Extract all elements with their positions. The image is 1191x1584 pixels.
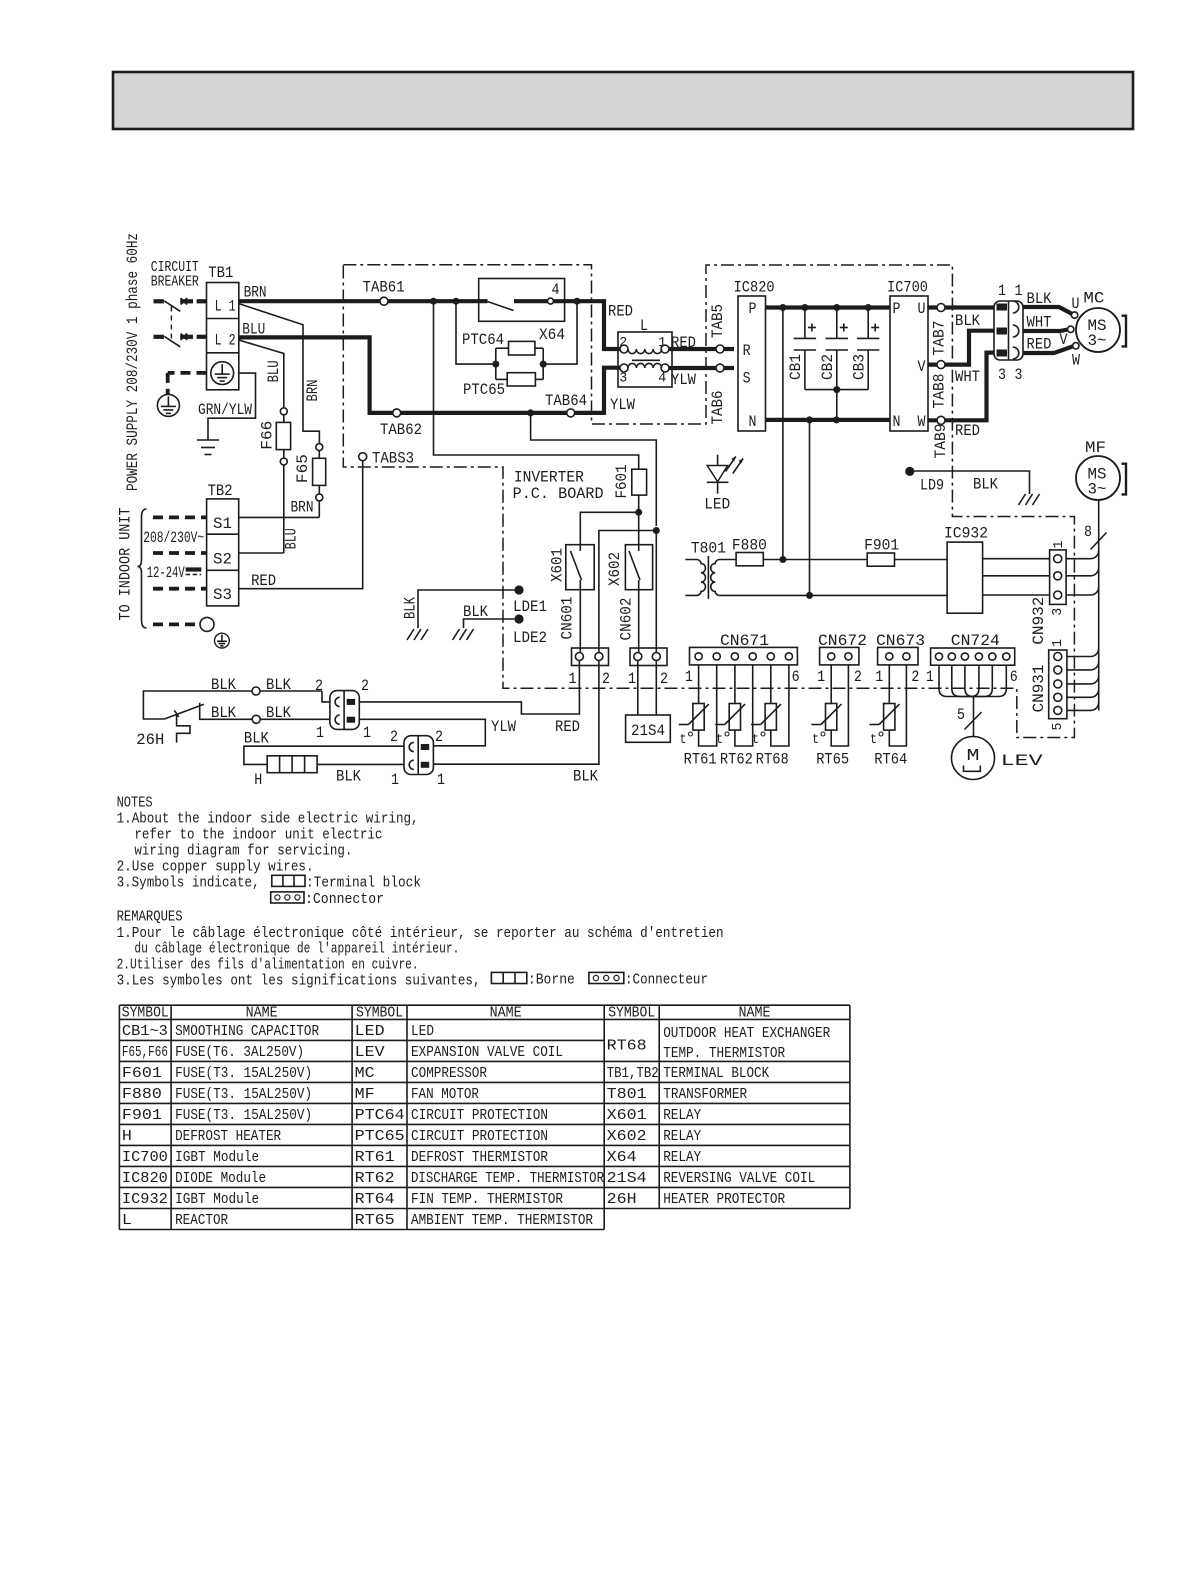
svg-text:3~: 3~: [1088, 481, 1107, 499]
svg-text:N: N: [893, 413, 901, 431]
heater protector 26H: [136, 691, 330, 749]
svg-text:GRN/YLW: GRN/YLW: [198, 401, 253, 419]
svg-text:TAB64: TAB64: [545, 392, 587, 410]
connecteur symbol legend: [589, 972, 708, 989]
svg-text:CN931: CN931: [1030, 665, 1048, 713]
connector CN724: [926, 632, 1018, 686]
svg-text:BLK: BLK: [266, 676, 292, 694]
svg-text:BLK: BLK: [973, 476, 999, 494]
svg-text:X602: X602: [606, 552, 624, 586]
node F601 out: [635, 509, 642, 516]
reversing valve coil 21S4: [626, 661, 671, 743]
GRN/YLW earth wire: [197, 373, 256, 454]
splice BLK lower: [211, 704, 292, 723]
svg-text:LEV: LEV: [355, 1045, 385, 1061]
svg-text:MC: MC: [1083, 290, 1104, 308]
svg-text:NOTES: NOTES: [117, 795, 153, 812]
svg-text:RED: RED: [1027, 336, 1052, 354]
svg-text:FUSE(T3. 15AL250V): FUSE(T3. 15AL250V): [175, 1108, 312, 1124]
svg-text:t: t: [812, 732, 819, 748]
svg-text:R: R: [743, 342, 751, 360]
svg-text:1: 1: [926, 668, 934, 686]
splice BLK upper: [211, 676, 292, 695]
svg-text:IGBT Module: IGBT Module: [175, 1192, 259, 1208]
svg-text:YLW: YLW: [671, 371, 697, 389]
thermistor RT61: [679, 665, 717, 769]
transformer T801: [685, 540, 736, 599]
svg-text:H: H: [254, 771, 262, 789]
svg-text:FAN MOTOR: FAN MOTOR: [411, 1087, 479, 1103]
connector CN601: [559, 597, 611, 689]
wire V phase: [928, 331, 994, 365]
svg-text:PTC65: PTC65: [463, 381, 505, 399]
svg-text:RED: RED: [671, 334, 696, 352]
svg-text:1: 1: [628, 670, 636, 688]
svg-text:FIN TEMP. THERMISTOR: FIN TEMP. THERMISTOR: [411, 1192, 563, 1208]
svg-text:8: 8: [1084, 523, 1092, 541]
svg-text:IC820: IC820: [122, 1171, 168, 1187]
PTC64 PTC65 protection circuit: [456, 301, 577, 379]
svg-text:1.Pour le câblage électronique: 1.Pour le câblage électronique côté inté…: [117, 925, 724, 942]
fuse F66: [259, 408, 301, 553]
svg-text:BRN: BRN: [291, 499, 314, 517]
svg-text:CN724: CN724: [951, 632, 1000, 650]
svg-text:LD9: LD9: [920, 477, 944, 495]
connector 26H plug: [315, 677, 371, 742]
svg-text:3.Symbols indicate,: 3.Symbols indicate,: [117, 875, 260, 892]
wire S1: [239, 516, 320, 518]
svg-text:LED: LED: [411, 1024, 434, 1040]
svg-text:BLK: BLK: [266, 704, 292, 722]
thermistor RT62: [715, 665, 753, 769]
svg-text:AMBIENT TEMP. THERMISTOR: AMBIENT TEMP. THERMISTOR: [411, 1213, 593, 1229]
svg-text:BREAKER: BREAKER: [151, 274, 199, 291]
terminal TAB8: [931, 361, 981, 409]
svg-text::Borne: :Borne: [528, 972, 575, 989]
svg-text:1: 1: [817, 668, 825, 686]
svg-text:t: t: [752, 732, 759, 748]
terminal block symbol legend: [272, 875, 421, 892]
svg-text:RT68: RT68: [607, 1039, 647, 1055]
svg-text:RELAY: RELAY: [663, 1150, 701, 1166]
connector CN673: [875, 632, 925, 686]
inverter PCB boundary: [343, 265, 1074, 738]
svg-text:F66: F66: [259, 421, 277, 450]
wire MC BLK: [1023, 290, 1072, 314]
terminal TABS3: [359, 449, 414, 467]
wire X602 to CN602-1: [638, 590, 640, 653]
svg-text:X602: X602: [607, 1129, 647, 1145]
svg-text:YLW: YLW: [610, 396, 636, 414]
svg-text:26H: 26H: [136, 731, 164, 749]
wire P bus: [766, 304, 891, 311]
relay X601: [549, 545, 595, 590]
svg-text:CB3: CB3: [850, 354, 868, 380]
svg-text:X601: X601: [607, 1108, 647, 1124]
svg-text:RELAY: RELAY: [663, 1108, 701, 1124]
terminal TAB6: [709, 364, 727, 425]
TO INDOOR UNIT label and brace: [117, 508, 205, 629]
svg-text:SYMBOL: SYMBOL: [356, 1004, 403, 1021]
svg-text:REACTOR: REACTOR: [175, 1213, 228, 1229]
svg-text:IC932: IC932: [122, 1192, 168, 1208]
svg-text:FUSE(T6. 3AL250V): FUSE(T6. 3AL250V): [175, 1045, 304, 1061]
svg-text:LEV: LEV: [1001, 752, 1044, 770]
svg-text:TAB5: TAB5: [709, 304, 727, 338]
svg-text:BLK: BLK: [336, 767, 362, 785]
wire YLW plug link: [359, 718, 516, 746]
svg-text:1: 1: [569, 670, 577, 688]
svg-text:T801: T801: [607, 1087, 647, 1103]
external earth electrode: [157, 394, 179, 416]
svg-text:TAB9: TAB9: [932, 424, 950, 459]
svg-text:NAME: NAME: [490, 1004, 522, 1021]
wire reactor to IC820 R: [668, 334, 734, 352]
wire T801 secondary rail: [720, 592, 947, 599]
svg-text:5: 5: [957, 706, 965, 724]
svg-text:26H: 26H: [607, 1192, 637, 1208]
svg-text:BLK: BLK: [1027, 290, 1053, 308]
wire to relay X601: [580, 512, 638, 544]
wire RED to CN601-1: [359, 661, 580, 737]
svg-text:CIRCUIT PROTECTION: CIRCUIT PROTECTION: [411, 1129, 548, 1145]
svg-text:LDE1: LDE1: [513, 598, 547, 616]
svg-text:4: 4: [658, 371, 666, 387]
terminal LDE1: [402, 585, 548, 640]
svg-text:TERMINAL BLOCK: TERMINAL BLOCK: [663, 1066, 769, 1082]
wire W phase: [928, 353, 994, 421]
svg-text:H: H: [122, 1129, 132, 1145]
svg-text:TAB8: TAB8: [931, 374, 949, 409]
connector symbol legend: [271, 891, 384, 908]
inverter PCB label: [513, 469, 604, 503]
svg-text:X64: X64: [607, 1150, 637, 1166]
wire X601 to CN601-1: [579, 590, 581, 653]
svg-text:TABS3: TABS3: [372, 449, 414, 467]
defrost heater H: [254, 756, 404, 789]
svg-text:T801: T801: [691, 540, 726, 558]
svg-text:L: L: [640, 317, 648, 335]
svg-text:EXPANSION VALVE COIL: EXPANSION VALVE COIL: [411, 1045, 563, 1061]
svg-text:F901: F901: [864, 536, 899, 554]
svg-text:6: 6: [1010, 668, 1018, 686]
circuit breaker label: [151, 259, 199, 291]
connector CN672: [817, 632, 867, 686]
terminal TAB62: [380, 409, 422, 439]
svg-text:P: P: [749, 300, 757, 318]
svg-text:1: 1: [437, 771, 445, 789]
svg-text:POWER SUPPLY 208/230V 1 phase: POWER SUPPLY 208/230V 1 phase 60Hz: [124, 233, 142, 491]
svg-text:BLK: BLK: [211, 676, 237, 694]
wire F901 to IC932: [895, 559, 948, 561]
svg-text:21S4: 21S4: [631, 722, 665, 740]
svg-text:REVERSING VALVE COIL: REVERSING VALVE COIL: [663, 1171, 815, 1187]
svg-text:S: S: [743, 370, 751, 388]
wire BLK to heater: [244, 730, 404, 765]
IGBT module IC932: [944, 525, 988, 614]
svg-text:DISCHARGE TEMP. THERMISTOR: DISCHARGE TEMP. THERMISTOR: [411, 1171, 604, 1187]
svg-text::Terminal block: :Terminal block: [306, 875, 421, 892]
compressor motor MC: [1060, 290, 1127, 370]
connector CN932: [1030, 541, 1067, 645]
thermistor RT64: [870, 665, 908, 769]
svg-text:CN673: CN673: [876, 632, 925, 650]
svg-text:SYMBOL: SYMBOL: [122, 1004, 169, 1021]
svg-text:BLU: BLU: [265, 360, 283, 382]
fuse F880: [732, 536, 767, 565]
wire BLK heater return: [434, 661, 599, 786]
svg-text:RT65: RT65: [355, 1213, 395, 1229]
svg-text:1: 1: [1050, 639, 1066, 647]
svg-text:IC700: IC700: [122, 1150, 168, 1166]
wire S2: [239, 552, 284, 554]
svg-text:W: W: [1072, 352, 1081, 370]
svg-text:1: 1: [363, 724, 371, 742]
svg-text:RELAY: RELAY: [663, 1129, 701, 1145]
svg-text:F901: F901: [122, 1108, 162, 1124]
svg-text:WHT: WHT: [955, 368, 980, 386]
wire capacitor bottom bus: [805, 386, 868, 420]
wire MC RED: [1023, 336, 1073, 354]
svg-text:RT61: RT61: [684, 751, 717, 769]
notes text: [117, 795, 419, 892]
wire S3 RED to TABS3: [239, 461, 363, 590]
svg-text:RT61: RT61: [355, 1150, 395, 1166]
terminal TAB64: [545, 392, 587, 417]
svg-text:W: W: [918, 413, 927, 431]
svg-text:RT65: RT65: [816, 751, 849, 769]
svg-text:1: 1: [1051, 541, 1067, 549]
resistor PTC64: [462, 331, 535, 355]
svg-text:RED: RED: [251, 572, 276, 590]
fan motor MF: [1076, 439, 1126, 500]
svg-text:BLK: BLK: [244, 730, 270, 748]
wire BRN L1 to F65: [239, 284, 322, 444]
svg-text:F601: F601: [122, 1066, 162, 1082]
svg-text:TO INDOOR UNIT: TO INDOOR UNIT: [117, 508, 135, 621]
svg-text:3: 3: [998, 366, 1006, 384]
svg-text:DEFROST THERMISTOR: DEFROST THERMISTOR: [411, 1150, 548, 1166]
circuit breaker poles: [154, 298, 207, 347]
borne symbol legend: [491, 972, 575, 989]
svg-text:RT64: RT64: [355, 1192, 395, 1208]
svg-text:t: t: [716, 732, 723, 748]
relay X602: [606, 545, 653, 590]
svg-text:5: 5: [1050, 723, 1066, 731]
connector CN602: [618, 598, 669, 689]
svg-text:12-24V: 12-24V: [147, 564, 185, 582]
svg-text:CB2: CB2: [819, 354, 837, 380]
wire BLU L2 to F66: [239, 320, 284, 407]
svg-text:TB1: TB1: [208, 264, 233, 282]
terminal TAB7: [931, 304, 981, 356]
svg-text:PTC64: PTC64: [355, 1108, 405, 1124]
svg-text:TAB62: TAB62: [380, 421, 422, 439]
svg-text:TEMP. THERMISTOR: TEMP. THERMISTOR: [663, 1046, 785, 1062]
svg-text:BLK: BLK: [955, 312, 981, 330]
svg-text:2: 2: [315, 677, 323, 695]
svg-text:6: 6: [792, 668, 800, 686]
svg-text:CN672: CN672: [818, 632, 867, 650]
resistor PTC65: [463, 373, 535, 399]
svg-text:YLW: YLW: [491, 718, 517, 736]
svg-text::Connector: :Connector: [305, 891, 384, 908]
compressor connector: [994, 282, 1023, 384]
svg-text:BRN: BRN: [244, 284, 267, 302]
svg-text:BLK: BLK: [211, 704, 237, 722]
terminal LDE2: [453, 603, 548, 647]
svg-text:TAB61: TAB61: [363, 279, 405, 297]
svg-text:S3: S3: [213, 586, 232, 604]
svg-text:2.Use copper supply wires.: 2.Use copper supply wires.: [117, 859, 314, 876]
IGBT module IC700: [887, 279, 928, 431]
svg-text:S2: S2: [213, 551, 232, 569]
svg-text:refer to the indoor unit elect: refer to the indoor unit electric: [134, 827, 382, 844]
svg-text:1: 1: [1015, 282, 1023, 300]
terminal TAB5: [709, 304, 727, 353]
svg-text:RED: RED: [555, 718, 580, 736]
svg-text:S1: S1: [213, 515, 232, 533]
wire N rail drop to T801 line: [809, 420, 811, 596]
ground wire dashed: [168, 373, 207, 395]
svg-text:2: 2: [361, 677, 369, 695]
svg-text:F601: F601: [613, 465, 631, 499]
svg-text:V: V: [1060, 331, 1069, 349]
svg-text:RT62: RT62: [720, 751, 753, 769]
expansion valve motor LEV: [952, 737, 1044, 780]
svg-text:TB2: TB2: [208, 482, 233, 500]
svg-text:1: 1: [316, 724, 324, 742]
svg-text:F880: F880: [122, 1087, 162, 1103]
wire U phase: [928, 305, 994, 309]
svg-text:1: 1: [658, 335, 666, 351]
svg-text:2: 2: [602, 670, 610, 688]
svg-text:1.About the indoor side electr: 1.About the indoor side electric wiring,: [117, 811, 419, 828]
svg-text:INVERTER: INVERTER: [514, 469, 584, 487]
fuse F601: [434, 301, 647, 512]
svg-text:M: M: [967, 747, 980, 766]
svg-text:2.Utiliser des fils d'alimenta: 2.Utiliser des fils d'alimentation en cu…: [117, 957, 419, 974]
svg-text::Connecteur: :Connecteur: [625, 972, 708, 989]
svg-text:DIODE Module: DIODE Module: [175, 1171, 266, 1187]
svg-text:2: 2: [619, 335, 627, 351]
svg-text:RED: RED: [955, 422, 980, 440]
svg-text:2: 2: [660, 670, 668, 688]
svg-text:BRN: BRN: [304, 380, 322, 402]
svg-text:4: 4: [552, 281, 560, 299]
fuse F65: [291, 444, 326, 518]
svg-text:21S4: 21S4: [607, 1171, 647, 1187]
wire P rail drop to F880 line: [782, 308, 784, 560]
svg-text:t: t: [870, 732, 877, 748]
svg-text:MC: MC: [355, 1066, 375, 1082]
node TAB64 junction: [527, 409, 534, 416]
svg-text:NAME: NAME: [739, 1004, 771, 1021]
svg-text:SMOOTHING CAPACITOR: SMOOTHING CAPACITOR: [175, 1024, 319, 1040]
svg-text:REMARQUES: REMARQUES: [117, 908, 183, 925]
svg-text:F880: F880: [732, 536, 767, 554]
fuse F901: [864, 536, 899, 566]
capacitor CB1: [787, 308, 816, 390]
svg-text:du câblage électronique de l'a: du câblage électronique de l'appareil in…: [134, 941, 459, 958]
indoor earth terminal: [200, 617, 229, 648]
wire YLW to CN602-2: [655, 531, 657, 653]
svg-text:BLK: BLK: [402, 596, 420, 619]
node L1-X64 junctions: [430, 298, 581, 305]
wire to CN601-2: [599, 531, 656, 653]
svg-text:LDE2: LDE2: [513, 629, 547, 647]
svg-text:P.C. BOARD: P.C. BOARD: [513, 485, 604, 503]
node YLW junction: [653, 527, 660, 534]
svg-text:NAME: NAME: [246, 1004, 278, 1021]
svg-text:TAB7: TAB7: [931, 321, 949, 356]
svg-text:208/230V~: 208/230V~: [143, 529, 204, 547]
wire L1 BRN main: [239, 301, 633, 349]
svg-text:3~: 3~: [1088, 332, 1107, 350]
connector CN671: [685, 632, 800, 686]
title header bar: [113, 72, 1133, 129]
terminal LD9: [905, 467, 1039, 505]
wires CN932 to fan bundle: [1066, 551, 1099, 595]
remarques text: [117, 908, 724, 989]
svg-text:N: N: [749, 413, 757, 431]
svg-text:OUTDOOR HEAT EXCHANGER: OUTDOOR HEAT EXCHANGER: [663, 1026, 830, 1042]
svg-text:3: 3: [1015, 366, 1023, 384]
svg-text:RT68: RT68: [756, 751, 789, 769]
relay X64: [479, 279, 565, 345]
terminal block TB1: [207, 264, 239, 390]
wire fan motor bundle: [1084, 500, 1107, 710]
wires CN724 bundle to LEV: [939, 665, 1006, 736]
svg-text:BLU: BLU: [282, 528, 300, 549]
svg-text:PTC64: PTC64: [462, 331, 504, 349]
svg-text:2: 2: [911, 668, 919, 686]
svg-text:L 2: L 2: [215, 332, 236, 350]
svg-text:L: L: [122, 1213, 132, 1229]
wire N bus: [766, 416, 891, 423]
svg-text:IGBT Module: IGBT Module: [175, 1150, 259, 1166]
indoor unit dashed leads: [153, 517, 207, 624]
terminal block TB2: [207, 482, 239, 606]
legend table: [119, 1004, 850, 1229]
svg-text:TRANSFORMER: TRANSFORMER: [663, 1087, 747, 1103]
wire YLW feed to X602 CN601-2: [531, 413, 657, 526]
thermistor RT65: [811, 665, 849, 769]
svg-text:CN671: CN671: [720, 632, 769, 650]
svg-text:U: U: [1072, 295, 1080, 313]
svg-text:3: 3: [1050, 608, 1066, 616]
svg-text:WHT: WHT: [1027, 314, 1052, 332]
thermistor RT68: [751, 665, 789, 769]
svg-text:FUSE(T3. 15AL250V): FUSE(T3. 15AL250V): [175, 1066, 312, 1082]
svg-text:2: 2: [390, 728, 398, 746]
svg-text:2: 2: [435, 728, 443, 746]
svg-text:MF: MF: [1085, 439, 1106, 457]
LED indicator: [704, 455, 743, 514]
svg-text:RED: RED: [608, 302, 633, 320]
svg-text:3.Les symboles ont les signifi: 3.Les symboles ont les significations su…: [117, 972, 481, 989]
wires CN931 to fan bundle: [1067, 649, 1099, 711]
svg-text:F65: F65: [294, 454, 312, 483]
svg-text:SYMBOL: SYMBOL: [608, 1004, 655, 1021]
svg-text:MF: MF: [355, 1087, 375, 1103]
svg-text:CIRCUIT PROTECTION: CIRCUIT PROTECTION: [411, 1108, 548, 1124]
svg-text:2: 2: [854, 668, 862, 686]
svg-text:P: P: [893, 300, 901, 318]
wire reactor to IC820 S: [668, 368, 734, 389]
svg-text:TAB6: TAB6: [709, 391, 727, 425]
svg-text:HEATER PROTECTOR: HEATER PROTECTOR: [663, 1192, 785, 1208]
